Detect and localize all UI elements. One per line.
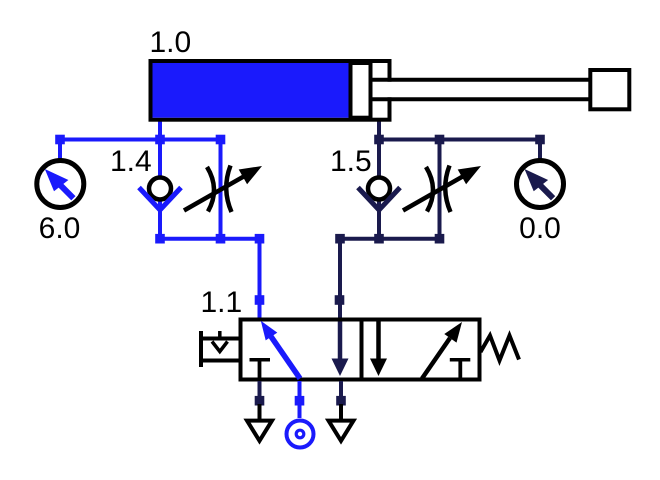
- wire: valve port 1 stub (supply): [298, 381, 302, 418]
- wire: drop from 1.5 to valve port 2: [338, 239, 342, 319]
- check valve 1.4 seat: [139, 188, 181, 211]
- svg-text:1.5: 1.5: [330, 145, 372, 178]
- cylinder 1.0 piston: [351, 63, 371, 118]
- junction square node (220.5,139.5): [216, 135, 226, 145]
- exhaust left connector line: [258, 404, 262, 420]
- junction square node (379,238.7): [374, 234, 384, 244]
- valve 1.1 right box blocked port 3 (T): [450, 358, 471, 362]
- wire: valve port 5 stub: [258, 381, 262, 404]
- pressure gauge 6.0: [37, 161, 84, 208]
- svg-text:1.4: 1.4: [110, 145, 152, 178]
- exhaust left triangle: [247, 421, 272, 441]
- exhaust right triangle: [329, 421, 354, 441]
- throttle 1.4 adjust arrow: [184, 176, 244, 210]
- wire: gauge 0.0 riser: [538, 140, 542, 161]
- valve 1.1 right box flow arrow down: [376, 322, 381, 361]
- wire: check-valve branch 1.5 vertical: [377, 140, 381, 239]
- cylinder 1.0 rod end block: [590, 70, 629, 109]
- valve 1.1 manual detent actuator: [199, 331, 203, 367]
- svg-text:1.0: 1.0: [150, 26, 192, 59]
- wire: cylinder left port to node: [158, 120, 162, 140]
- pressure gauge 0.0: [517, 161, 564, 208]
- throttle 1.5 left arc: [426, 167, 433, 212]
- gauge 6.0 needle: [59, 183, 74, 198]
- throttle 1.5 right arc: [445, 166, 450, 213]
- junction square node (60,139.5): [55, 135, 65, 145]
- wire: top-right horizontal (to gauge 0.0): [379, 138, 540, 142]
- cylinder 1.0 body: [151, 61, 390, 120]
- junction square node (160,139.5): [155, 135, 165, 145]
- throttle 1.4 right arc: [226, 166, 231, 213]
- valve 1.1 right box diagonal flow arrow: [422, 338, 450, 379]
- valve 1.1 body: [241, 320, 480, 380]
- wire: throttle branch 1.4 vertical: [219, 140, 223, 239]
- valve 1.1 return spring: [481, 336, 520, 361]
- valve 1.1 left box blocked port 5 (T): [250, 358, 271, 362]
- svg-text:1.1: 1.1: [201, 286, 243, 319]
- wire: top-left horizontal (gauge 6.0 to throttle branch): [60, 138, 221, 142]
- junction square node (439.5,139.5): [435, 135, 445, 145]
- valve 1.1 left box flow arrow 2 to 3 (navy): [338, 322, 343, 361]
- wire: valve port 3 stub: [339, 381, 343, 404]
- check valve 1.5 ball: [368, 178, 390, 200]
- valve 1.1 left box flow arrow 1 to 4 (blue): [271, 337, 300, 379]
- valve 1.1 position divider: [360, 318, 364, 382]
- throttle 1.5 adjust arrow: [403, 176, 463, 210]
- wire: check-valve branch 1.4 vertical: [158, 140, 162, 239]
- wire: drop from 1.4 to valve port 4: [258, 239, 262, 319]
- wire: cylinder right port to node: [377, 120, 381, 140]
- compressed air source symbol: [287, 421, 314, 448]
- junction square node (220.5,238.7): [216, 234, 226, 244]
- junction square node (160,238.7): [155, 234, 165, 244]
- cylinder 1.0 piston rod: [373, 82, 591, 98]
- wire: bottom horizontal of 1.5: [340, 237, 440, 241]
- port square exhaust right: [336, 396, 346, 406]
- check valve 1.4 ball: [149, 178, 171, 200]
- check valve 1.5 seat: [358, 188, 400, 211]
- junction square node (379,139.5): [374, 135, 384, 145]
- port square valve port 2: [335, 295, 345, 305]
- junction square node (439.5,238.7): [435, 234, 445, 244]
- junction square node (540,139.5): [535, 135, 545, 145]
- gauge 0.0 needle: [538, 183, 553, 198]
- svg-text:6.0: 6.0: [39, 212, 81, 245]
- svg-text:0.0: 0.0: [519, 212, 561, 245]
- port square exhaust left: [255, 396, 265, 406]
- throttle 1.4 left arc: [207, 167, 214, 212]
- wire: bottom horizontal of 1.4: [160, 237, 260, 241]
- junction square node (340,238.7): [335, 234, 345, 244]
- port square supply: [295, 396, 305, 406]
- junction square node (259.5,238.7): [255, 234, 265, 244]
- wire: gauge 6.0 riser: [58, 140, 62, 161]
- exhaust right connector line: [339, 404, 343, 420]
- cylinder 1.0 pressurized chamber fill: [153, 63, 351, 118]
- wire: throttle branch 1.5 vertical: [438, 140, 442, 239]
- port square valve port 4: [255, 295, 265, 305]
